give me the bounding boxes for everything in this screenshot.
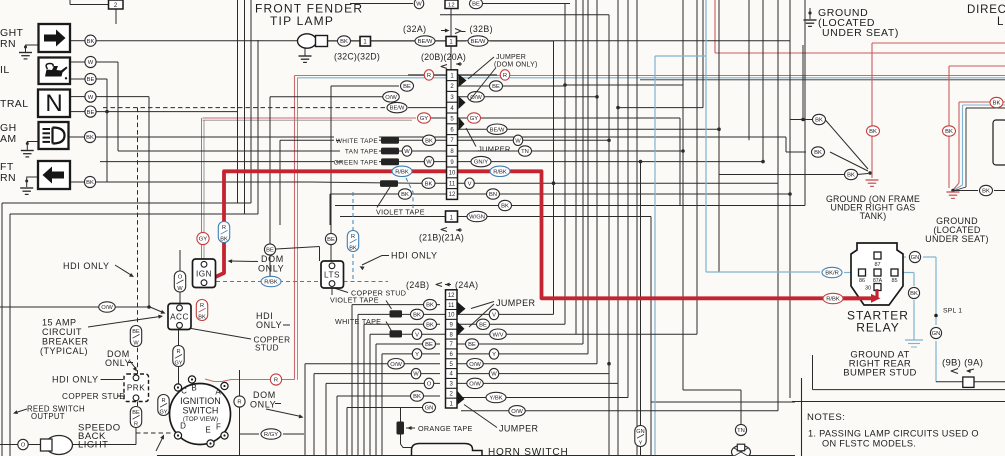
svg-text:BK: BK (426, 303, 434, 309)
svg-text:W: W (413, 372, 419, 378)
svg-text:2: 2 (114, 3, 118, 9)
svg-text:BE: BE (266, 248, 274, 254)
svg-text:GN: GN (932, 331, 941, 337)
svg-text:ONLY: ONLY (250, 400, 276, 410)
svg-text:R: R (134, 421, 138, 427)
svg-text:BE/W: BE/W (490, 127, 505, 133)
svg-text:BK: BK (198, 314, 206, 320)
svg-text:Y: Y (639, 440, 643, 446)
svg-text:O/W: O/W (469, 362, 481, 368)
svg-text:BE: BE (327, 237, 335, 243)
svg-text:TRAL: TRAL (0, 98, 28, 110)
svg-text:BK: BK (86, 180, 94, 186)
svg-text:W: W (426, 160, 432, 166)
svg-text:CIRCUIT: CIRCUIT (42, 327, 82, 337)
svg-text:IGNITION: IGNITION (180, 396, 221, 406)
svg-text:RN: RN (0, 38, 16, 50)
svg-text:R/BK: R/BK (826, 297, 840, 303)
svg-text:BK: BK (910, 291, 918, 297)
svg-text:R: R (222, 225, 226, 231)
svg-text:O: O (21, 443, 26, 449)
svg-text:BE: BE (87, 110, 95, 116)
svg-text:BE/W: BE/W (418, 39, 433, 45)
svg-text:10: 10 (449, 171, 456, 177)
svg-text:V: V (415, 332, 419, 338)
svg-text:COPPER STUD: COPPER STUD (62, 392, 126, 401)
svg-text:TIP LAMP: TIP LAMP (270, 14, 334, 28)
svg-text:BK: BK (501, 204, 509, 210)
svg-text:SWITCH: SWITCH (182, 406, 218, 416)
svg-text:BK: BK (982, 189, 990, 195)
svg-text:12: 12 (448, 293, 455, 299)
svg-text:(24B): (24B) (406, 280, 430, 290)
svg-text:W: W (404, 149, 410, 155)
svg-text:BK: BK (993, 101, 1001, 107)
svg-text:1: 1 (363, 40, 367, 46)
svg-text:(32A): (32A) (403, 24, 427, 34)
svg-text:ONLY: ONLY (256, 320, 282, 330)
svg-text:OUTPUT: OUTPUT (31, 412, 65, 421)
svg-text:BE: BE (132, 410, 140, 416)
svg-text:RN: RN (0, 172, 16, 184)
svg-text:BK: BK (401, 192, 409, 198)
svg-text:R: R (274, 378, 278, 384)
svg-text:W: W (491, 372, 497, 378)
svg-text:F: F (216, 423, 221, 432)
svg-text:GN/Y: GN/Y (474, 160, 488, 166)
svg-text:VIOLET TAPE: VIOLET TAPE (376, 208, 425, 217)
svg-text:W/GN: W/GN (469, 215, 485, 221)
svg-text:1: 1 (449, 40, 453, 46)
svg-text:87A: 87A (873, 278, 883, 284)
svg-text:30: 30 (865, 286, 871, 292)
svg-text:IL: IL (0, 64, 10, 76)
svg-text:11: 11 (448, 303, 455, 309)
svg-text:BUMPER STUD: BUMPER STUD (843, 368, 917, 379)
svg-text:11: 11 (449, 181, 456, 187)
svg-text:DOM: DOM (253, 390, 276, 400)
svg-text:(TYPICAL): (TYPICAL) (40, 346, 88, 356)
svg-text:IGN: IGN (196, 270, 212, 279)
svg-text:C: C (181, 387, 187, 396)
svg-text:O/W: O/W (511, 409, 523, 415)
svg-text:15 AMP: 15 AMP (42, 318, 77, 328)
svg-text:DIRECT: DIRECT (967, 4, 1005, 16)
svg-text:JUMPER: JUMPER (496, 298, 536, 308)
svg-text:(21B)(21A): (21B)(21A) (419, 233, 464, 243)
svg-text:12: 12 (448, 3, 455, 9)
svg-text:BK: BK (945, 129, 953, 135)
svg-text:BK: BK (349, 245, 357, 251)
svg-text:R: R (200, 303, 204, 309)
svg-text:E: E (205, 426, 210, 435)
svg-text:GN: GN (425, 406, 434, 412)
svg-text:N: N (45, 90, 62, 117)
svg-text:(DOM ONLY): (DOM ONLY) (494, 62, 537, 69)
svg-text:W: W (416, 2, 422, 8)
svg-text:GY: GY (420, 116, 429, 122)
svg-text:BE/W: BE/W (471, 39, 486, 45)
svg-text:BK: BK (814, 150, 822, 156)
svg-text:HDI ONLY: HDI ONLY (391, 251, 438, 261)
svg-text:ONLY: ONLY (258, 264, 284, 274)
svg-text:BK: BK (413, 394, 421, 400)
svg-text:Y/BK: Y/BK (489, 396, 502, 402)
svg-text:GY: GY (174, 360, 182, 366)
svg-text:PRK: PRK (127, 384, 145, 393)
svg-text:BK: BK (220, 236, 228, 242)
svg-text:GY: GY (159, 409, 167, 415)
svg-text:BK: BK (86, 135, 94, 141)
svg-text:WHITE TAPE: WHITE TAPE (335, 317, 381, 326)
svg-text:1: 1 (450, 215, 454, 221)
svg-text:BK: BK (425, 181, 433, 187)
svg-text:O: O (178, 274, 183, 280)
svg-text:O/W: O/W (390, 362, 402, 368)
svg-text:GN: GN (636, 429, 644, 435)
svg-text:W/V: W/V (493, 332, 504, 338)
svg-text:BE: BE (132, 329, 140, 335)
svg-text:TN: TN (521, 149, 529, 155)
svg-text:ON FLSTC MODELS.: ON FLSTC MODELS. (822, 439, 916, 449)
svg-text:12: 12 (449, 192, 456, 198)
svg-text:O/W: O/W (101, 305, 113, 311)
svg-text:JUMPER: JUMPER (499, 424, 539, 434)
svg-text:BE: BE (472, 2, 480, 8)
svg-text:D: D (180, 422, 186, 431)
svg-text:BK/R: BK/R (825, 271, 839, 277)
svg-text:87: 87 (874, 262, 880, 268)
svg-text:O: O (427, 382, 432, 388)
svg-text:BE: BE (468, 342, 476, 348)
svg-text:(9B) (9A): (9B) (9A) (942, 358, 983, 369)
svg-text:10: 10 (448, 313, 455, 319)
svg-text:BN: BN (489, 192, 497, 198)
svg-text:W: W (177, 286, 183, 292)
svg-text:BK: BK (426, 322, 434, 328)
svg-text:R: R (427, 73, 431, 79)
svg-text:GN: GN (911, 255, 920, 261)
svg-text:LTS: LTS (324, 271, 340, 280)
svg-text:HDI ONLY: HDI ONLY (63, 261, 110, 271)
svg-text:UNDER SEAT): UNDER SEAT) (822, 27, 899, 39)
svg-text:ORANGE TAPE: ORANGE TAPE (418, 424, 473, 433)
svg-text:ACC: ACC (170, 312, 189, 321)
svg-text:JUMPER: JUMPER (496, 54, 526, 61)
svg-text:NOTES:: NOTES: (807, 412, 845, 423)
svg-text:R: R (161, 398, 165, 404)
svg-text:R/BK: R/BK (395, 169, 409, 175)
svg-text:BK: BK (425, 138, 433, 144)
svg-text:LIGHT: LIGHT (78, 440, 108, 451)
svg-text:BK: BK (413, 313, 421, 319)
svg-text:O/W: O/W (469, 382, 481, 388)
svg-text:W: W (133, 340, 139, 346)
svg-text:GREEN TAPE: GREEN TAPE (334, 159, 379, 166)
svg-text:R/GY: R/GY (264, 432, 278, 438)
svg-text:R: R (237, 400, 241, 406)
svg-text:DOM: DOM (261, 254, 284, 264)
svg-text:TN: TN (737, 428, 745, 434)
svg-text:(24A): (24A) (455, 280, 479, 290)
svg-text:WHITE TAPE: WHITE TAPE (336, 138, 378, 145)
svg-text:W: W (88, 95, 94, 101)
svg-text:BK: BK (869, 129, 877, 135)
svg-text:BE: BE (479, 322, 487, 328)
svg-text:V: V (468, 181, 472, 187)
svg-text:GY: GY (199, 237, 208, 243)
svg-text:TAN TAPE: TAN TAPE (345, 149, 378, 156)
svg-text:86: 86 (859, 278, 865, 284)
svg-text:Y: Y (415, 352, 419, 358)
svg-text:STUD: STUD (255, 344, 279, 353)
svg-text:AM: AM (0, 133, 17, 145)
svg-text:O/W: O/W (385, 95, 397, 101)
svg-text:BE: BE (425, 342, 433, 348)
svg-text:85: 85 (891, 278, 897, 284)
svg-text:BREAKER: BREAKER (42, 337, 89, 347)
svg-text:BK: BK (87, 39, 95, 45)
svg-text:R: R (503, 73, 507, 79)
svg-text:1. PASSING LAMP CIRCUITS USED: 1. PASSING LAMP CIRCUITS USED O (808, 429, 979, 439)
svg-text:R: R (351, 234, 355, 240)
svg-text:TANK): TANK) (860, 211, 887, 221)
svg-text:GY: GY (470, 116, 479, 122)
svg-text:RELAY: RELAY (856, 321, 899, 335)
svg-text:SPL 1: SPL 1 (943, 308, 962, 315)
svg-text:W: W (88, 60, 94, 66)
svg-text:BE: BE (492, 84, 500, 90)
svg-text:V: V (492, 313, 496, 319)
svg-text:BK: BK (847, 173, 855, 179)
svg-text:BE/W: BE/W (390, 106, 405, 112)
svg-text:BE: BE (403, 84, 411, 90)
svg-text:(32B): (32B) (470, 24, 494, 34)
svg-text:W: W (515, 138, 521, 144)
svg-text:(20B)(20A): (20B)(20A) (421, 52, 466, 62)
svg-text:HDI ONLY: HDI ONLY (52, 375, 99, 385)
svg-text:R: R (176, 349, 180, 355)
svg-text:BK: BK (340, 39, 348, 45)
svg-text:Y: Y (492, 352, 496, 358)
svg-text:(TOP VIEW): (TOP VIEW) (183, 416, 218, 423)
svg-text:R/BK: R/BK (493, 169, 507, 175)
svg-text:L: L (997, 16, 1004, 28)
svg-text:B: B (191, 384, 196, 393)
svg-text:VIOLET TAPE: VIOLET TAPE (330, 296, 379, 305)
svg-text:ONLY: ONLY (105, 358, 131, 368)
svg-text:HORN SWITCH: HORN SWITCH (488, 447, 568, 456)
svg-text:UNDER SEAT): UNDER SEAT) (925, 234, 989, 244)
svg-text:BK: BK (815, 118, 823, 124)
svg-text:R/BK: R/BK (264, 280, 278, 286)
svg-text:BE: BE (87, 77, 95, 83)
svg-text:JUMPER: JUMPER (478, 144, 511, 153)
svg-text:(32C)(32D): (32C)(32D) (334, 52, 380, 62)
